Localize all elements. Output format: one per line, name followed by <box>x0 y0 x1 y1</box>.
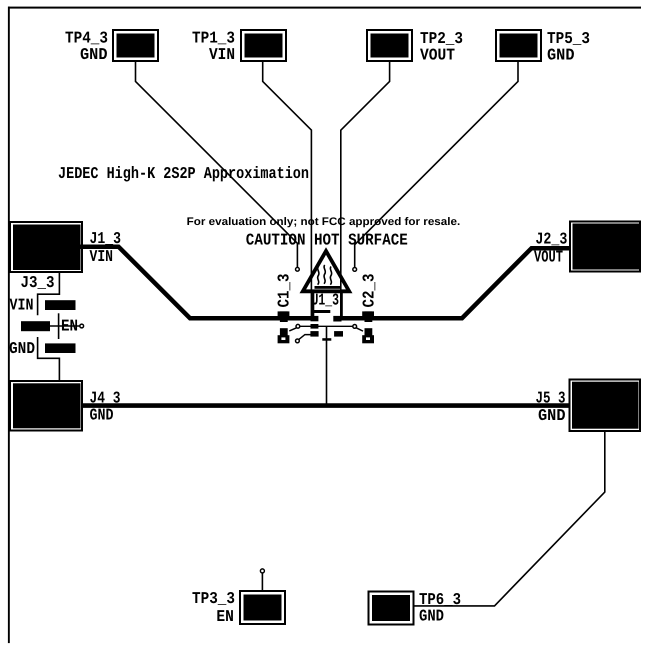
capacitor C1_3 bottom cap <box>278 335 290 343</box>
svg-text:VIN: VIN <box>10 295 34 314</box>
J3 pin3 pad GND <box>45 343 76 353</box>
via right <box>353 325 357 329</box>
wire J3 mid vertical <box>58 313 60 339</box>
U1 pad row2 <box>311 324 319 329</box>
via (TP4_3 net) <box>296 267 300 271</box>
svg-text:C1_3: C1_3 <box>274 273 293 307</box>
U1 pad row1 <box>311 316 319 321</box>
wire J1 to J3 pin1 <box>38 272 60 316</box>
U1 outline left edge <box>312 290 315 319</box>
connector J1_3 <box>10 222 82 272</box>
J3 pin1 pad VIN <box>45 300 76 310</box>
via (TP5_3 net) <box>353 268 357 272</box>
J3 pin2 pad EN <box>21 321 50 331</box>
connector J2_3 <box>570 222 640 272</box>
svg-text:TP3_3: TP3_3 <box>192 589 235 608</box>
via left lower <box>296 339 300 343</box>
svg-text:VIN: VIN <box>209 45 235 64</box>
capacitor C2_3 bottom cap <box>362 335 374 343</box>
capacitor C2_3 bottom pad <box>365 328 373 337</box>
capacitor C2_3 top pad <box>365 311 373 322</box>
svg-text:GND: GND <box>9 339 35 358</box>
wire TP4_3 to via <box>136 60 298 267</box>
board outline left edge <box>8 7 10 644</box>
svg-text:JEDEC High-K 2S2P Approximatio: JEDEC High-K 2S2P Approximation <box>58 164 309 183</box>
wire EN stub <box>50 325 80 327</box>
svg-text:GND: GND <box>90 406 114 425</box>
trace VOUT U1 to J2 <box>334 248 571 318</box>
svg-text:For evaluation only; not FCC a: For evaluation only; not FCC approved fo… <box>187 216 461 228</box>
wire via to C2 bottom pad <box>356 328 363 331</box>
svg-text:GND: GND <box>80 45 108 64</box>
wire TP1_3 to U1 pin <box>263 60 312 317</box>
U1 right pad row3 <box>334 331 343 337</box>
capacitor C2_3 bottom notch <box>366 337 370 340</box>
wire J5 to TP6 <box>414 431 605 606</box>
wire TP3_3 stub <box>261 573 263 591</box>
test point TP3_3 pad <box>240 591 285 624</box>
test point TP4_3 pad <box>113 30 158 61</box>
svg-text:C2_3: C2_3 <box>360 273 379 307</box>
capacitor C1_3 bottom pad <box>280 328 288 337</box>
test point TP2_3 pad <box>367 30 412 61</box>
wire TP5_3 to via <box>355 60 518 267</box>
U1 pin bar <box>313 310 331 313</box>
via (TP3_3 net) <box>260 569 264 573</box>
svg-text:EN: EN <box>61 317 78 336</box>
board outline top edge <box>8 7 641 9</box>
svg-text:EN: EN <box>216 607 234 626</box>
via left upper <box>296 324 300 328</box>
svg-text:CAUTION HOT SURFACE: CAUTION HOT SURFACE <box>246 231 408 250</box>
heat wave 3 <box>330 267 331 285</box>
via (EN net) <box>80 324 84 328</box>
svg-text:GND: GND <box>538 406 566 425</box>
wire via to U1 pad row3 <box>299 335 311 340</box>
heat wave 1 <box>318 267 319 285</box>
trace GND J4 to J5 <box>82 403 569 408</box>
test point TP6_3 pad <box>369 592 414 625</box>
U1 pad row3 <box>310 331 318 337</box>
capacitor C2_3 top cap <box>362 311 374 318</box>
tick mark on GND wire <box>322 338 331 341</box>
test point TP5_3 pad <box>496 30 541 61</box>
wire GND vertical to trace <box>326 326 328 405</box>
capacitor C1_3 bottom notch <box>281 337 285 340</box>
U1 outline right edge <box>340 290 343 319</box>
svg-text:VIN: VIN <box>90 247 114 266</box>
wire GND thin horizontal <box>300 325 353 327</box>
capacitor C1_3 top pad <box>280 311 288 322</box>
test point TP1_3 pad <box>241 30 286 61</box>
U1 right pad row1 <box>333 316 341 322</box>
svg-text:U1_3: U1_3 <box>312 290 340 309</box>
wire via to C1 bottom pad <box>289 328 297 331</box>
svg-text:GND: GND <box>547 45 575 64</box>
hot surface bar <box>315 286 341 289</box>
wire J3 pin3 to J4 <box>38 337 60 381</box>
connector J4_3 <box>10 381 82 431</box>
svg-text:J3_3: J3_3 <box>21 273 55 292</box>
capacitor C1_3 top cap <box>278 311 290 318</box>
trace VIN J1 to U1 <box>80 247 318 319</box>
svg-text:J2_3: J2_3 <box>535 230 567 249</box>
svg-text:GND: GND <box>419 606 444 625</box>
heat wave 2 <box>324 265 325 284</box>
connector J5_3 <box>570 380 641 432</box>
wire TP2_3 to U1 pin <box>341 60 390 317</box>
svg-text:VOUT: VOUT <box>420 45 455 64</box>
hot surface warning triangle U1 <box>303 251 349 291</box>
